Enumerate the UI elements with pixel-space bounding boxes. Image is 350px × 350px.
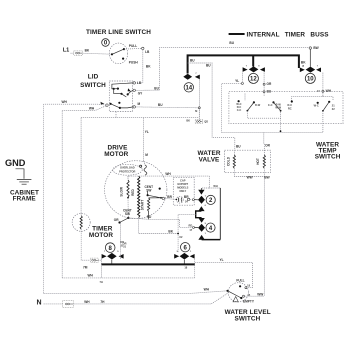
svg-text:FRAME: FRAME — [13, 196, 37, 203]
overload contact symbol — [140, 165, 142, 167]
wire L1 to connector — [71, 52, 74, 54]
svg-text:RD: RD — [189, 223, 193, 227]
svg-text:WW: WW — [257, 292, 263, 296]
svg-text:BK: BK — [146, 65, 151, 69]
svg-text:W-W: W-W — [275, 106, 281, 110]
svg-text:YL: YL — [145, 130, 149, 134]
heavy buss drop to contact 12 — [252, 55, 254, 66]
svg-text:PROTECTOR: PROTECTOR — [119, 170, 135, 174]
timer contact number circle 10 — [305, 73, 315, 83]
connector QD1 on L1 lead — [74, 51, 83, 55]
svg-text:RED: RED — [131, 188, 135, 195]
lid switch plunger link — [115, 112, 117, 118]
wire BK down to lid switch — [135, 50, 142, 83]
cap export enclosure — [173, 177, 194, 205]
timer contact 14 right triangle — [195, 75, 200, 80]
legend: internal timer buss sample line — [229, 33, 245, 35]
svg-text:WH: WH — [88, 274, 94, 278]
svg-text:M: M — [137, 102, 140, 106]
S3 right section contacts — [291, 100, 293, 102]
wire BU from contact 14 node to water valve cold — [187, 62, 189, 64]
connector QD3 — [90, 258, 98, 262]
SW1 pivot — [111, 53, 113, 55]
S3 bottom rail — [247, 111, 280, 119]
svg-text:OVERLOAD: OVERLOAD — [120, 166, 135, 170]
lid switch terminal LB — [133, 82, 135, 84]
connector QD2 — [195, 119, 203, 123]
connector QD4 — [63, 301, 74, 308]
wire OR: cent sw lower to contact 8 — [120, 223, 122, 253]
wire PULL contact to terminal LB — [124, 47, 143, 50]
contact 4 bottom triangle — [198, 235, 204, 240]
svg-text:N: N — [37, 300, 42, 307]
wire contact 12 left throw down YL — [222, 73, 243, 133]
svg-text:WH: WH — [89, 107, 95, 111]
svg-text:EXPORT: EXPORT — [177, 182, 188, 186]
svg-text:FULL: FULL — [236, 279, 244, 283]
svg-text:CAP: CAP — [180, 179, 186, 183]
svg-text:BU: BU — [206, 63, 211, 67]
svg-text:14: 14 — [185, 86, 192, 92]
svg-text:7H: 7H — [100, 300, 105, 304]
svg-text:X2: X2 — [179, 235, 183, 239]
overload protector — [113, 164, 143, 175]
wire M from lid switch to node — [135, 106, 199, 109]
svg-text:M: M — [145, 153, 148, 157]
wire N to connector — [44, 303, 63, 305]
wire YL contact 6 to water level switch — [195, 262, 252, 287]
wire timer motor to contact 8 — [81, 229, 90, 260]
S3 feed forks from BU entry — [244, 94, 246, 101]
timer contact number circle 8 — [105, 243, 115, 253]
timer contact number circle 4 — [206, 223, 215, 232]
svg-text:OR: OR — [114, 218, 119, 222]
motor top rail WH — [128, 176, 209, 177]
heavy wire contact 4 bottom and right side — [219, 188, 221, 240]
svg-text:RD: RD — [147, 215, 152, 219]
S3 right pivot drop — [322, 111, 324, 132]
S3 contact A — [238, 100, 240, 102]
svg-text:PUSH: PUSH — [129, 60, 139, 64]
svg-text:OR: OR — [120, 240, 124, 244]
wire contact 12 right throw down to water temp switch — [263, 73, 265, 97]
S4 lever — [233, 297, 238, 302]
timer motor winding — [80, 216, 82, 230]
wire RD: start winding to contact 4 — [128, 218, 192, 228]
svg-text:YL: YL — [235, 79, 239, 83]
svg-text:SLOW: SLOW — [119, 187, 123, 197]
svg-text:VALVE: VALVE — [199, 156, 220, 163]
svg-text:TIMER LINE SWITCH: TIMER LINE SWITCH — [86, 29, 151, 36]
wire valve return down right side — [263, 177, 265, 297]
timer contact number circle 0 — [102, 39, 110, 47]
water temp switch S3 enclosure — [229, 92, 343, 124]
contact 6 drops — [183, 260, 185, 265]
svg-text:L1: L1 — [63, 48, 70, 54]
contact 2 diamond — [192, 199, 194, 201]
lid switch left terminal — [106, 104, 108, 106]
wire WH lower: lid switch common to inner rail — [62, 106, 106, 111]
wire WH upper: lid switch common to left rail — [44, 103, 106, 106]
wire connector to timer line switch pivot — [83, 53, 113, 54]
svg-text:BK: BK — [186, 118, 190, 122]
contact 6 diamond — [180, 253, 190, 260]
wire BK: main winding to contact 6 — [139, 218, 178, 234]
SW1 PUSH contact — [122, 58, 124, 60]
svg-text:M: M — [195, 109, 197, 113]
svg-text:INTERNAL TIMER BUSS: INTERNAL TIMER BUSS — [247, 31, 330, 38]
svg-text:EMPTY: EMPTY — [243, 300, 255, 304]
water level switch S4 body — [228, 283, 248, 302]
timer contact 12 diamond — [249, 66, 259, 72]
svg-text:LID: LID — [88, 74, 99, 81]
svg-text:WH: WH — [165, 172, 171, 176]
svg-text:BW: BW — [264, 175, 269, 179]
lid switch contact dots row1 — [113, 88, 115, 90]
wire horizontal node rail y117.6 — [81, 117, 199, 119]
wire OR rail under box — [222, 131, 323, 133]
winding MAIN (RED) — [138, 176, 140, 217]
wire WH return to water level pivot — [44, 291, 228, 294]
svg-text:ONLY: ONLY — [179, 189, 186, 193]
contact 4 diamond — [193, 226, 195, 228]
ground symbol — [17, 179, 32, 181]
svg-text:C-C: C-C — [268, 103, 273, 107]
svg-text:LB: LB — [145, 50, 150, 54]
wire bus terminal down to contact 10 diamond — [309, 49, 311, 67]
svg-text:HOT: HOT — [256, 158, 260, 165]
wire timer motor feed down — [80, 118, 82, 214]
wire BR motor to capacitor — [162, 197, 164, 199]
timer motor B2 body — [72, 213, 90, 231]
S4 arm to EMPTY — [228, 291, 242, 298]
wire BU bus: lid switch up and across to contact 10 — [159, 48, 310, 91]
svg-text:WW: WW — [247, 175, 253, 179]
svg-text:WH: WH — [204, 287, 210, 291]
svg-text:WH: WH — [84, 300, 90, 304]
arrow tick on WH wire — [101, 102, 105, 105]
svg-text:QD: QD — [204, 120, 208, 124]
timer contact 10 diamond — [306, 67, 316, 73]
S3 rail drop — [280, 118, 282, 132]
terminal BW on bus end — [309, 47, 311, 49]
wire YL drop to drive motor — [143, 118, 145, 161]
contact 8 right triangle — [119, 254, 124, 259]
svg-text:BU: BU — [158, 103, 163, 107]
wire contact 14 throw down to node — [198, 80, 200, 118]
svg-text:OR: OR — [265, 144, 270, 148]
timer contact 10 right triangle — [316, 68, 321, 73]
timer contact number circle 6 — [181, 243, 190, 252]
svg-text:BU: BU — [190, 58, 195, 62]
timer contact 12 right triangle — [260, 67, 265, 72]
S3 contact B — [272, 101, 274, 103]
lid switch lower contacts — [110, 103, 112, 105]
svg-text:BR: BR — [167, 195, 172, 199]
winding SLOW — [127, 176, 129, 180]
timer line switch SW1 body (dashed circle) — [109, 43, 127, 64]
contact 6 right triangle — [190, 254, 195, 259]
drive motor B1 body — [105, 161, 167, 219]
svg-text:MOTOR: MOTOR — [104, 151, 128, 158]
svg-text:SW: SW — [146, 189, 151, 193]
svg-text:7H: 7H — [100, 280, 103, 284]
timer contact number circle 14 — [184, 83, 193, 92]
svg-text:BU: BU — [154, 86, 159, 90]
contact 8 drops to buss — [100, 259, 102, 265]
svg-text:BK: BK — [301, 61, 306, 65]
wire N to water level switch — [74, 303, 212, 305]
wire connector to contact 8 left — [98, 259, 101, 261]
timer contact number circle 12 — [248, 73, 258, 83]
svg-text:BK: BK — [168, 230, 173, 234]
svg-text:7M: 7M — [83, 266, 88, 270]
svg-text:MODELS: MODELS — [177, 185, 188, 189]
svg-text:START: START — [141, 200, 145, 210]
timer contact 10 left triangle — [300, 68, 305, 73]
svg-text:WH: WH — [62, 100, 68, 104]
svg-text:R-W: R-W — [255, 103, 261, 107]
terminal at node LB — [142, 47, 144, 49]
svg-text:12: 12 — [250, 77, 257, 83]
svg-text:OR: OR — [267, 82, 272, 86]
svg-text:LB: LB — [137, 81, 142, 85]
contact 8 left triangle — [102, 254, 107, 259]
contact 4 top triangle — [198, 218, 204, 223]
water valve enclosure — [225, 150, 271, 173]
SW1 PULL contact — [123, 48, 125, 50]
svg-text:BU: BU — [236, 144, 241, 148]
svg-text:BK: BK — [85, 49, 90, 53]
lid switch terminal GY — [133, 89, 135, 91]
capacitor C1 — [176, 196, 183, 203]
S4 pivot — [227, 290, 229, 292]
wire GY to buss riser — [135, 89, 159, 91]
svg-text:SWITCH: SWITCH — [80, 82, 106, 89]
thin WH buss bottom — [62, 277, 195, 279]
svg-text:COLD: COLD — [226, 156, 230, 166]
left outer rail down — [43, 104, 45, 293]
timer contact 12 left triangle — [243, 67, 248, 72]
svg-text:10: 10 — [307, 77, 314, 83]
svg-text:PULL: PULL — [129, 44, 137, 48]
lid switch mid contacts — [114, 89, 122, 94]
wire GND lead — [16, 169, 25, 179]
wire BR capacitor to contact 2 — [187, 198, 189, 200]
contact 2 top triangle — [198, 190, 204, 195]
svg-text:GND: GND — [5, 158, 26, 168]
contact 8 diamond — [107, 253, 117, 260]
valve bottom rail WW — [234, 168, 264, 176]
svg-text:YL: YL — [220, 258, 224, 262]
contact 6 left triangle — [174, 254, 179, 259]
wire WH drop into contact 2 — [201, 176, 209, 188]
svg-text:BW: BW — [313, 46, 318, 50]
wire OR drop to hot solenoid — [263, 132, 266, 155]
SW1 moving arm to PULL contact — [112, 49, 124, 54]
svg-text:SWITCH: SWITCH — [234, 315, 260, 322]
lid switch S2 enclosure — [109, 81, 132, 112]
lid switch blade — [128, 88, 131, 91]
contact 2 bottom triangle — [198, 206, 204, 211]
left inner rail down — [61, 111, 63, 278]
wire N diagonal to water level switch — [211, 292, 230, 304]
heavy internal timer buss bottom — [101, 263, 194, 265]
svg-text:BR: BR — [184, 195, 189, 199]
timer contact 14 diamond — [183, 74, 192, 80]
lid switch terminal M — [120, 107, 133, 108]
lid switch internal wire top — [112, 83, 133, 89]
wire M lead into overload — [144, 161, 145, 165]
svg-text:C-C: C-C — [237, 108, 242, 112]
timer contact number circle 2 — [206, 195, 215, 204]
svg-text:BU: BU — [229, 41, 234, 45]
wire from contact 14 throw node down — [198, 108, 200, 121]
wire contact 10 right throw down to water temp switch — [322, 73, 324, 96]
svg-text:SW: SW — [125, 212, 130, 216]
svg-text:RC: RC — [288, 106, 292, 110]
heavy internal timer buss top — [188, 55, 299, 73]
wire contact 2 bottom to bracket — [196, 211, 202, 218]
S3 right section top rail — [292, 97, 334, 101]
svg-text:WH: WH — [326, 89, 332, 93]
wire EMPTY to valve return — [245, 295, 265, 297]
svg-text:WH: WH — [213, 184, 217, 188]
svg-text:W-C: W-C — [314, 103, 319, 107]
svg-text:SWITCH: SWITCH — [315, 154, 341, 161]
winding START — [148, 198, 150, 212]
svg-text:MOTOR: MOTOR — [89, 232, 113, 239]
